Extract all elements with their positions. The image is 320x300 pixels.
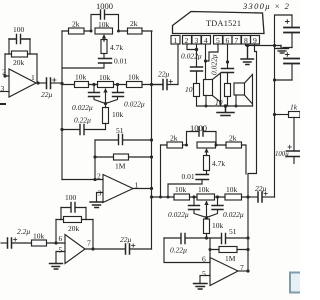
node low row mid — [205, 236, 208, 239]
edge stub — [0, 103, 5, 105]
node pin2 A1 — [3, 74, 6, 77]
svg-text:100: 100 — [13, 25, 25, 34]
wire A1 output — [36, 82, 46, 84]
resistor R20 1M — [210, 247, 248, 253]
node pin4 branch — [204, 59, 207, 62]
svg-text:0.022μ: 0.022μ — [210, 54, 219, 75]
wire supply rail — [275, 15, 293, 197]
node 1M right — [150, 155, 153, 158]
resistor R18 10k — [225, 194, 242, 200]
svg-text:1M: 1M — [115, 162, 126, 171]
wire pin5 A4 — [200, 276, 210, 283]
pin box 9 — [251, 36, 260, 45]
wire pin6 drop — [227, 44, 229, 68]
node N1 — [60, 82, 63, 85]
wire A3 output — [85, 248, 125, 250]
wire to pin6 A3 — [47, 242, 66, 244]
wire pin5 drop — [206, 44, 219, 61]
resistor R3 4.7k — [101, 40, 107, 58]
node bus a — [205, 105, 208, 108]
svg-text:20k: 20k — [13, 58, 25, 67]
node M1 — [150, 83, 153, 86]
svg-text:2k: 2k — [170, 134, 178, 143]
node A3 out — [91, 247, 94, 250]
resistor R7 10k vertical — [103, 104, 109, 130]
svg-text:7: 7 — [87, 239, 91, 248]
node row left — [150, 195, 153, 198]
IC U1 TDA1521 body — [173, 12, 265, 34]
pin box 5 — [214, 36, 223, 45]
wire pin9 drop to A4 bus — [248, 46, 257, 272]
node A2 out — [150, 187, 153, 190]
resistor R19 10k vertical — [204, 218, 210, 239]
potentiometer VR2 10k — [98, 82, 114, 104]
svg-text:4.7k: 4.7k — [212, 159, 225, 168]
capacitor C15 100 (A3 feedback) — [61, 203, 86, 220]
svg-text:1: 1 — [174, 36, 178, 45]
svg-text:6: 6 — [202, 255, 206, 264]
svg-text:0.01: 0.01 — [182, 172, 195, 181]
svg-text:10k: 10k — [226, 185, 238, 194]
capacitor C22 51 — [222, 234, 226, 244]
pin box 8 — [242, 36, 251, 45]
capacitor C11 0.022u (zobel 2) — [222, 69, 234, 84]
svg-text:1k: 1k — [290, 103, 298, 112]
node rail 1k — [273, 113, 276, 116]
svg-text:10k: 10k — [112, 110, 124, 119]
wire node N1 vertical — [61, 31, 63, 180]
ground under pins 8-9 — [241, 46, 254, 65]
capacitor C8 51 — [95, 135, 152, 145]
node A4 fb — [209, 248, 212, 251]
resistor R1 20k (feedback of A1) — [5, 51, 37, 57]
resistor R2 2k — [69, 28, 85, 34]
wire A2 feedback left — [94, 140, 96, 180]
svg-text:2k: 2k — [130, 19, 138, 28]
ground between caps — [277, 48, 292, 54]
capacitor C16 22u (A3 out coupling) — [126, 244, 152, 254]
op-amp A3 input cap 2.2u — [1, 238, 32, 248]
node row dot b — [116, 83, 119, 86]
capacitor C12 3300u — [284, 15, 300, 48]
node 1M left — [93, 155, 96, 158]
node pin6 A3 — [54, 241, 57, 244]
svg-text:6: 6 — [59, 234, 63, 243]
svg-text:22μ: 22μ — [120, 235, 132, 244]
svg-text:TDA1521: TDA1521 — [206, 19, 241, 28]
pin box 7 — [232, 36, 241, 45]
wire pin4 to speaker — [205, 44, 207, 80]
svg-text:22μ: 22μ — [255, 184, 267, 193]
node pin6 — [226, 60, 229, 63]
svg-text:51: 51 — [116, 126, 124, 135]
node pin2 A2 — [93, 178, 96, 181]
node drop 0.01 — [167, 196, 170, 199]
node A4 out — [246, 269, 249, 272]
capacitor C13 3300u — [284, 53, 300, 80]
wire zobel1 to bus — [196, 97, 198, 107]
capacitor C7 0.22u — [62, 125, 106, 135]
wire center vertical bus — [151, 31, 153, 249]
node bus c — [235, 105, 238, 108]
capacitor C4 0.01 — [62, 59, 112, 69]
svg-text:0.022μ: 0.022μ — [181, 52, 202, 61]
node A1 out — [36, 81, 39, 84]
svg-text:1000: 1000 — [96, 1, 113, 11]
node row dot d — [216, 195, 219, 198]
resistor R4 2k — [128, 28, 143, 34]
svg-text:10k: 10k — [175, 185, 187, 194]
svg-text:22μ: 22μ — [41, 90, 53, 99]
svg-text:20k: 20k — [68, 224, 80, 233]
capacitor C14 100u — [287, 118, 301, 164]
ground A4 — [194, 284, 208, 290]
potentiometer VR4 10k — [197, 194, 215, 217]
svg-text:1000: 1000 — [190, 123, 207, 133]
node row dot a — [92, 83, 95, 86]
capacitor C10 0.022u (zobel 1) — [191, 50, 203, 84]
ground bus symbol — [217, 106, 234, 116]
svg-text:4.7k: 4.7k — [110, 43, 123, 52]
svg-text:0.022μ: 0.022μ — [72, 103, 93, 112]
wire low row left drop — [164, 238, 210, 263]
capacitor C6 0.022u — [106, 85, 124, 104]
wire ch1 mid row — [62, 84, 162, 86]
wire ch1 tone row — [62, 30, 152, 32]
svg-text:7: 7 — [235, 36, 239, 45]
resistor R9 10 (zobel 1) — [194, 84, 200, 97]
wire ch2 low row — [164, 237, 248, 239]
svg-text:0.022μ: 0.022μ — [124, 100, 145, 109]
op-amp A4 — [210, 258, 238, 286]
node 1000 right — [117, 30, 120, 33]
capacitor C2 22u (A1 output coupling) — [47, 78, 63, 89]
svg-text:2.2μ: 2.2μ — [17, 227, 30, 236]
op-amp A3 — [65, 235, 85, 264]
capacitor C19 0.022u — [189, 197, 207, 218]
capacitor C18 0.01 — [168, 175, 209, 198]
capacitor C5 0.022u — [89, 85, 106, 104]
wire A2 pin2 line — [62, 179, 103, 181]
node wiper junction 2 — [205, 216, 208, 219]
capacitor C20 0.022u — [207, 197, 224, 218]
wire A2 output — [133, 188, 152, 190]
node 1000 left — [90, 30, 93, 33]
svg-text:2k: 2k — [229, 134, 237, 143]
capacitor C23 22u (ch2 to supply col) — [248, 192, 275, 202]
svg-text:0.22μ: 0.22μ — [170, 246, 187, 255]
wire pin5 A3 — [56, 252, 65, 263]
resistor R16 2k — [226, 142, 242, 148]
node A4 bus dots — [246, 195, 249, 198]
op-amp A2 — [103, 175, 133, 203]
pin box 3 — [192, 36, 201, 45]
ground A2 — [90, 202, 103, 208]
svg-text:100: 100 — [65, 193, 77, 202]
pin box 1 — [171, 36, 180, 45]
capacitor C3 1000 (over pot) — [91, 10, 119, 31]
resistor R11 1k — [275, 112, 301, 118]
resistor R6 10k — [127, 82, 143, 88]
pin box 4 — [202, 36, 211, 45]
svg-text:1: 1 — [31, 73, 35, 82]
svg-text:5: 5 — [202, 269, 206, 278]
wire input to pin3 A1 — [0, 91, 9, 93]
svg-text:10k: 10k — [99, 73, 111, 82]
node under pin3 — [195, 48, 198, 51]
svg-text:2: 2 — [2, 68, 6, 77]
resistor R14 2k — [167, 142, 183, 148]
node 1M right — [246, 248, 249, 251]
svg-text:10k: 10k — [33, 232, 45, 241]
resistor R13 20k (A3 feedback) — [56, 217, 93, 223]
node wiper junction — [104, 102, 107, 105]
ground right of rail — [276, 46, 288, 54]
resistor R10 10 (zobel 2) — [225, 84, 231, 97]
svg-text:1M: 1M — [225, 254, 236, 263]
node low row right — [246, 236, 249, 239]
node pin8 tie — [246, 44, 249, 47]
svg-text:0.022μ: 0.022μ — [223, 210, 244, 219]
potentiometer VR1 10k — [95, 28, 113, 41]
svg-text:51: 51 — [229, 227, 237, 236]
svg-text:10k: 10k — [75, 73, 87, 82]
svg-text:10k: 10k — [98, 20, 110, 29]
svg-text:0.22μ: 0.22μ — [74, 116, 91, 125]
wire pins2-3 tie — [187, 44, 197, 50]
node 1000 right — [215, 144, 218, 147]
node 1000 left — [185, 144, 188, 147]
node N1b — [60, 128, 63, 131]
wire feedback left drop to pin2 — [5, 54, 9, 76]
wire pin tie to rail — [248, 45, 282, 47]
resistor R12 10k — [32, 240, 47, 246]
svg-text:0.022μ: 0.022μ — [168, 210, 189, 219]
svg-text:3300μ × 2: 3300μ × 2 — [242, 1, 290, 11]
wire ch2 tone row — [161, 145, 247, 174]
resistor R17 10k — [174, 194, 190, 200]
wire ground bus — [197, 105, 253, 107]
watermark box bottom right — [290, 273, 302, 293]
svg-text:5: 5 — [59, 246, 63, 255]
wire feedback right drop to A1 output — [36, 54, 38, 83]
speaker LS2 — [234, 75, 253, 107]
svg-text:0.01: 0.01 — [114, 57, 127, 66]
capacitor C9 22u (to TDA pin1) — [152, 80, 179, 90]
svg-text:22μ: 22μ — [158, 70, 170, 79]
resistor R8 1M — [95, 154, 152, 160]
svg-text:100μ: 100μ — [275, 151, 289, 158]
wire TDA pin1 drop — [177, 44, 179, 85]
capacitor C1 100 (feedback of A1) — [9, 35, 30, 55]
svg-text:10k: 10k — [212, 221, 224, 230]
wire ch2 mid row — [152, 196, 249, 198]
node 51 right — [150, 138, 153, 141]
wire A4 feedback left drop — [209, 238, 211, 263]
node rail mid — [273, 78, 276, 81]
pin box 2 — [183, 36, 192, 45]
node row dot c — [192, 195, 195, 198]
wire A3 feedback drops — [56, 220, 93, 250]
resistor R15 4.7k — [204, 155, 210, 175]
node bus b — [224, 104, 228, 108]
wire pins8-9 tie — [246, 44, 255, 46]
svg-text:10k: 10k — [198, 185, 210, 194]
svg-text:10k: 10k — [128, 73, 140, 82]
speaker LS1 — [204, 73, 221, 106]
wire A4 output — [238, 270, 248, 272]
node rail top — [273, 44, 276, 47]
wire caps bottom to rail — [275, 79, 293, 81]
ground A3 — [50, 264, 63, 270]
node ch2 row left drop — [159, 196, 162, 199]
capacitor C17 1000 (over pot) — [187, 127, 217, 145]
capacitor C21 0.22u — [181, 234, 185, 244]
wire ch2 row left drop — [160, 145, 162, 197]
pin box 6 — [223, 36, 232, 45]
svg-text:10: 10 — [185, 85, 193, 94]
wire zobel2 to bus — [227, 97, 229, 107]
op-amp A1 — [9, 69, 36, 97]
svg-text:2k: 2k — [72, 20, 80, 29]
potentiometer VR3 10k — [197, 142, 216, 155]
resistor R5 10k — [75, 82, 89, 88]
svg-text:2: 2 — [97, 172, 101, 181]
wire pin3 A2 — [97, 193, 104, 202]
